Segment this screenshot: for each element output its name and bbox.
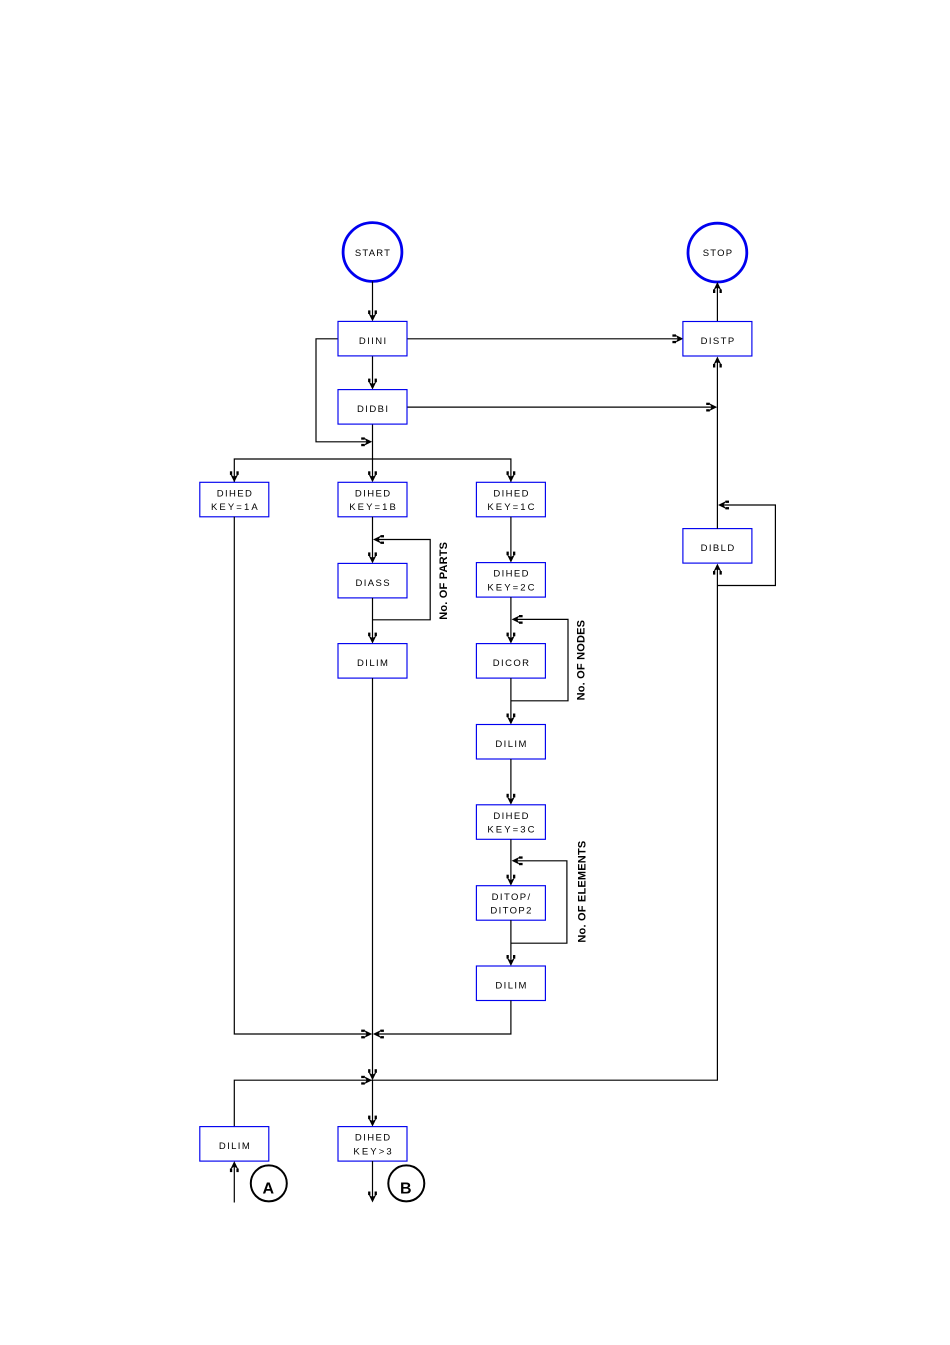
svg-text:DILIM: DILIM [495, 739, 527, 750]
svg-text:START: START [355, 248, 391, 259]
wire DITOP to DILIM C2 [507, 920, 516, 966]
wire DILIM B down center line [368, 678, 377, 1080]
wire KEY>3 to connector B [368, 1161, 377, 1202]
wire branch bar [234, 459, 511, 482]
process box DIHED KEY=2C [476, 563, 545, 598]
svg-text:KEY=1B: KEY=1B [349, 502, 398, 513]
wire bottom bus DILIM BL to DIBLD [234, 564, 722, 1127]
svg-text:DIINI: DIINI [359, 336, 388, 347]
wire DIDBI down to branch [368, 424, 377, 482]
svg-text:DIDBI: DIDBI [357, 404, 389, 415]
process box DIHED KEY=1C [476, 482, 545, 517]
connector circle A [251, 1165, 287, 1201]
process box DIHED KEY>3 [338, 1127, 407, 1162]
wire DICOR to DILIM C1 [507, 678, 516, 724]
wire DILIM C1 to KEY=3C [507, 759, 516, 805]
svg-text:STOP: STOP [703, 248, 734, 259]
wire DIBLD loop [717, 501, 775, 586]
process box DILIM column B [338, 644, 407, 679]
terminator circle STOP [688, 223, 747, 282]
process box DITOP/DITOP2 [476, 886, 545, 921]
svg-text:KEY=2C: KEY=2C [487, 582, 536, 593]
process box DIINI [338, 321, 407, 356]
svg-text:KEY=3C: KEY=3C [487, 825, 536, 836]
wire DISTP to STOP [713, 282, 722, 322]
svg-text:DILIM: DILIM [495, 981, 527, 992]
wire DIBLD to DISTP [713, 357, 722, 529]
wire DIDBI to right column [407, 403, 717, 412]
wire DIINI to DIDBI [368, 356, 377, 390]
svg-text:DIHED: DIHED [355, 488, 392, 499]
process box DIHED KEY=3C [476, 805, 545, 840]
wire connector A to DILIM [230, 1161, 239, 1202]
svg-text:DIBLD: DIBLD [701, 543, 736, 554]
svg-text:DITOP/: DITOP/ [492, 892, 532, 903]
wire DIINI left loop to center line [316, 339, 372, 446]
wire DILIM C2 to merge line [373, 1001, 511, 1039]
wire START to DIINI [368, 281, 377, 321]
svg-text:DIHED: DIHED [493, 488, 530, 499]
svg-text:DIHED: DIHED [355, 1133, 392, 1144]
process box DIASS [338, 563, 407, 598]
wire DIASS to DILIM [368, 598, 377, 644]
wire KEY=1A down to merge line [234, 517, 372, 1039]
svg-text:KEY=1A: KEY=1A [211, 502, 260, 513]
wire KEY=1B to DIASS [368, 517, 377, 564]
svg-text:DICOR: DICOR [493, 658, 531, 669]
svg-text:KEY>3: KEY>3 [353, 1146, 393, 1157]
wire DICOR loop No. OF NODES [511, 615, 568, 701]
terminator circle START [343, 223, 402, 282]
svg-text:DIHED: DIHED [493, 811, 530, 822]
process box DILIM column C first [476, 725, 545, 760]
svg-text:DIHED: DIHED [493, 569, 530, 580]
svg-text:DIHED: DIHED [217, 488, 254, 499]
process box DILIM bottom left [200, 1127, 269, 1162]
wire DIINI to DISTP [407, 334, 683, 343]
svg-text:No. OF PARTS: No. OF PARTS [438, 542, 450, 620]
svg-text:No. OF NODES: No. OF NODES [576, 620, 588, 701]
arrowhead into DIHED KEY=1A [230, 471, 239, 482]
svg-text:DISTP: DISTP [701, 336, 736, 347]
svg-text:A: A [263, 1180, 275, 1197]
svg-text:No. OF ELEMENTS: No. OF ELEMENTS [576, 841, 588, 943]
process box DIDBI [338, 390, 407, 425]
wire KEY=2C to DICOR [507, 597, 516, 644]
process box DICOR [476, 644, 545, 679]
svg-text:DIASS: DIASS [355, 578, 391, 589]
connector circle B [388, 1165, 424, 1201]
svg-text:KEY=1C: KEY=1C [487, 502, 536, 513]
process box DIHED KEY=1B [338, 482, 407, 517]
svg-text:DILIM: DILIM [219, 1141, 251, 1152]
arrowhead into DIHED KEY=1C [507, 471, 516, 482]
process box DIHED KEY=1A [200, 482, 269, 517]
wire DIASS loop No. OF PARTS [373, 535, 431, 620]
process box DISTP [683, 322, 752, 357]
process box DIBLD [683, 529, 752, 564]
process box DILIM column C second [476, 966, 545, 1001]
wire DITOP loop No. OF ELEMENTS [511, 856, 567, 943]
wire junction down to DIHED KEY>3 [368, 1080, 377, 1126]
wire KEY=1C to KEY=2C [507, 517, 516, 563]
svg-text:B: B [400, 1180, 412, 1197]
wire KEY=3C to DITOP [507, 839, 516, 885]
svg-text:DITOP2: DITOP2 [490, 905, 533, 916]
svg-text:DILIM: DILIM [357, 658, 389, 669]
